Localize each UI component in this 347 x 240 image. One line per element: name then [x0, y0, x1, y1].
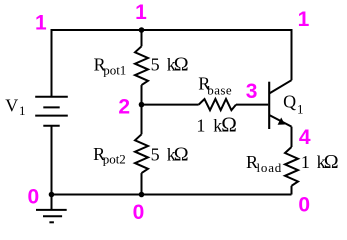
- transistor Q1 collector diagonal: [269, 80, 291, 93]
- svg-text:load: load: [257, 160, 283, 175]
- resistor Rpot1: [135, 46, 148, 85]
- resistor Rbase: [199, 99, 236, 110]
- svg-text:0: 0: [133, 201, 145, 224]
- node dot 2: [139, 102, 145, 108]
- wire bottom rail: [52, 194, 292, 196]
- svg-text:1: 1: [297, 101, 304, 116]
- svg-text:4: 4: [299, 126, 311, 149]
- svg-text:1kΩ: 1kΩ: [196, 112, 237, 136]
- wire top rail: battery + up, across top, down to collector: [52, 30, 292, 97]
- wire emitter down to Rload: [291, 127, 293, 147]
- ground: [36, 195, 67, 223]
- svg-text:0: 0: [298, 194, 310, 217]
- svg-text:pot1: pot1: [103, 63, 126, 78]
- resistor Rload: [285, 147, 298, 186]
- svg-text:pot2: pot2: [103, 151, 126, 166]
- transistor Q1 emitter arrow: [278, 118, 285, 125]
- svg-text:0: 0: [27, 185, 39, 208]
- resistor Rpot2: [135, 134, 148, 173]
- transistor Q1 emitter diagonal: [269, 115, 291, 127]
- svg-text:V: V: [5, 96, 18, 116]
- wire Rbase to base: [236, 104, 268, 106]
- svg-text:base: base: [207, 82, 232, 97]
- wire Rload to bottom rail: [291, 186, 293, 195]
- svg-text:3: 3: [246, 80, 258, 103]
- svg-text:2: 2: [118, 95, 130, 118]
- wire battery - down to bottom rail: [51, 126, 53, 195]
- svg-text:1: 1: [19, 103, 26, 118]
- svg-text:Q: Q: [283, 91, 296, 111]
- svg-text:5kΩ: 5kΩ: [151, 54, 189, 76]
- node dot 0 (bottom left / ground): [49, 192, 55, 198]
- node dot 0 (bottom middle): [139, 192, 145, 198]
- svg-text:1: 1: [35, 12, 47, 35]
- svg-text:1: 1: [135, 1, 147, 24]
- node dot 1 (top middle): [139, 27, 145, 33]
- transistor Q1 base bar: [268, 82, 270, 129]
- wire node 2 to Rbase: [142, 104, 199, 106]
- wire Rpot2 to bottom rail: [141, 173, 143, 194]
- battery V1: [35, 97, 68, 126]
- wire middle branch top: [141, 30, 143, 46]
- svg-text:1: 1: [298, 8, 310, 31]
- svg-text:5kΩ: 5kΩ: [151, 143, 189, 165]
- svg-text:1kΩ: 1kΩ: [301, 151, 339, 173]
- wire Rpot1 to node 2: [141, 85, 143, 134]
